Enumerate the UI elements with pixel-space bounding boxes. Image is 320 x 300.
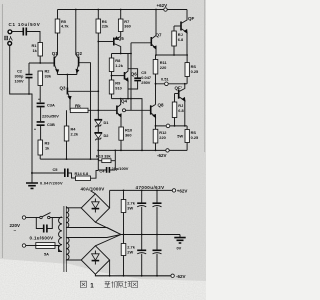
wire switch to transformer [50, 216, 62, 219]
svg-text:47000u/63V: 47000u/63V [136, 185, 165, 190]
resistor R8 [109, 58, 114, 72]
R9 bottom lead [111, 94, 113, 99]
svg-text:R14 6.8: R14 6.8 [75, 171, 89, 176]
svg-text:-62V: -62V [157, 153, 167, 158]
-62V supply rail [95, 274, 170, 276]
R10 bottom lead [120, 140, 122, 150]
R4 leads [66, 110, 68, 159]
svg-text:Q6: Q6 [131, 72, 138, 77]
svg-text:~: ~ [14, 228, 17, 233]
page edge line right [204, 0, 206, 152]
svg-text:C3A: C3A [47, 103, 55, 108]
svg-text:0.25: 0.25 [191, 135, 199, 140]
+62V supply rail [110, 189, 173, 191]
svg-text:+: + [38, 98, 40, 102]
C2 ground junction [28, 93, 30, 95]
wire Rk right to bias column [88, 109, 117, 111]
svg-text:33k: 33k [45, 74, 52, 79]
Q8 emitter node line [156, 125, 188, 127]
input terminal (signal) [8, 30, 12, 34]
transistor Q2 [76, 10, 79, 75]
resistor R2 [38, 71, 43, 86]
bias column (R6/diodes) [97, 10, 99, 160]
-62V amp rail [97, 149, 187, 151]
wire R1 bottom to base node [39, 56, 41, 63]
svg-text:2W: 2W [127, 250, 133, 255]
+62V supply terminal [172, 189, 175, 192]
resistor R3 [38, 140, 43, 155]
wire AC top to switch [26, 217, 40, 219]
-62V terminal [166, 149, 169, 152]
wire R3 bottom to node line [39, 155, 41, 159]
svg-text:3W: 3W [127, 206, 133, 211]
scanned photo grey region [0, 0, 206, 281]
svg-text:5W: 5W [177, 134, 183, 139]
transformer secondary 2 [66, 238, 69, 260]
wire C5 to R14 [68, 173, 75, 178]
svg-text:6.8: 6.8 [178, 37, 184, 42]
diode D2 [94, 133, 102, 141]
transistor QF [174, 10, 187, 56]
svg-text:Q8: Q8 [158, 102, 165, 107]
svg-text:28p/100V: 28p/100V [112, 166, 129, 171]
wire bus to Q3 [66, 75, 68, 88]
bridge1 top stub [90, 191, 95, 194]
capacitor C3B (electrolytic) [37, 122, 45, 125]
bleeder resistor 2.7k 3W [121, 200, 126, 213]
transistor Q5 [98, 37, 120, 54]
open test point near Q4 [123, 109, 126, 112]
transistor Q6 [111, 54, 129, 99]
svg-text:C1 10u/50V: C1 10u/50V [9, 22, 41, 27]
R7 leads [120, 10, 122, 37]
R12 leads [155, 126, 157, 150]
svg-text:R13 33k: R13 33k [96, 153, 112, 158]
wire bridge1 to +rail [109, 190, 111, 208]
emitter bus Q1/Q2 [57, 74, 77, 76]
bridge rectifier 1 [81, 194, 109, 222]
capacitor C5 (0.047/250V across Q6) [128, 69, 141, 89]
svg-text:4.7k: 4.7k [61, 24, 69, 29]
svg-text:0.25: 0.25 [191, 69, 199, 74]
svg-text:910: 910 [115, 85, 122, 90]
wire test point to driver column [126, 109, 151, 111]
transistor Q7 [131, 10, 156, 56]
resistor RJ (bottom) [172, 102, 177, 118]
svg-text:Q7: Q7 [156, 33, 163, 38]
svg-text:D1: D1 [104, 120, 110, 125]
svg-text:220: 220 [160, 65, 167, 70]
svg-text:1.2k: 1.2k [115, 63, 123, 68]
resistor R13 [98, 159, 115, 163]
svg-text:40A/1000V: 40A/1000V [81, 187, 105, 192]
AC terminal bottom [22, 244, 25, 247]
output line [156, 83, 188, 85]
diode D1 [94, 120, 102, 128]
RS bottom leads [186, 126, 188, 150]
line filter capacitor 0.1u/600V [36, 218, 52, 233]
svg-text:+62V: +62V [177, 189, 188, 194]
wire secondary1 to bridge1 [66, 207, 81, 209]
fuse 5A [36, 243, 55, 249]
filter cap top B [153, 190, 162, 234]
R11 leads [155, 55, 157, 105]
svg-text:5A: 5A [44, 251, 49, 256]
RJ top leads [173, 26, 175, 55]
resistor R7 [118, 19, 123, 32]
bleeder resistor 2.7k 2W [121, 244, 126, 256]
svg-text:0.047/200V: 0.047/200V [40, 181, 63, 186]
VAS bottom line [112, 99, 143, 151]
0V center line [121, 234, 180, 236]
figure caption 图1 整机原理图 (vector glyphs) [80, 281, 86, 287]
wire C3B to R3 [40, 126, 42, 140]
resistor RS (top) [185, 63, 189, 77]
R8 leads [111, 54, 113, 81]
svg-text:22k: 22k [102, 24, 109, 29]
svg-text:220u/50V: 220u/50V [42, 114, 59, 119]
resistor R1 [38, 43, 43, 57]
transformer core [64, 206, 66, 272]
svg-text:360: 360 [124, 24, 131, 29]
svg-text:360: 360 [125, 132, 132, 137]
wire rail to R5 to Q1 collector [57, 10, 59, 55]
driver base column [130, 43, 132, 111]
resistor R11 [153, 60, 158, 75]
Q7 emitter node line [156, 54, 187, 56]
svg-text:C3B: C3B [47, 122, 55, 127]
transistor Q4 [117, 99, 121, 127]
RJ bottom leads [174, 94, 176, 126]
RS top leads [186, 55, 188, 84]
svg-text:100V: 100V [15, 79, 24, 84]
input terminal (ground) [8, 42, 12, 46]
node: Q1 base line [29, 62, 54, 64]
resistor R5 [55, 19, 60, 33]
+62V terminal [164, 8, 167, 11]
ground line to C5 [32, 172, 64, 174]
wire fuse to transformer [55, 246, 62, 252]
resistor R12 [153, 129, 158, 143]
+62V top supply rail [58, 9, 188, 11]
resistor R10 [119, 127, 124, 140]
svg-text:Q4: Q4 [121, 99, 128, 104]
feedback block columns under -62V rail [97, 150, 116, 171]
2.7k 2W leads [123, 235, 125, 276]
wire AC bottom to fuse [26, 245, 36, 247]
power switch [40, 213, 51, 219]
input ground return wire [10, 45, 32, 173]
capacitor C3A (electrolytic) [37, 103, 45, 106]
svg-text:Q2: Q2 [76, 51, 83, 56]
capacitor C4 [98, 167, 115, 173]
transistor QF' [175, 84, 186, 126]
wire C1 to R1 top [27, 32, 40, 43]
resistor Rk [70, 108, 88, 112]
capacitor C1 [23, 28, 26, 36]
svg-text:-62V: -62V [176, 274, 186, 279]
wire input to C1 [12, 31, 23, 33]
output terminal [165, 82, 169, 86]
svg-text:0V: 0V [177, 246, 182, 251]
svg-text:QF': QF' [175, 85, 182, 90]
node line (R3/R4/feedback) [40, 158, 98, 160]
-62V supply terminal [171, 274, 174, 277]
center tap merge wires [66, 222, 121, 246]
filter cap bottom A [137, 235, 146, 276]
filter cap bottom B [153, 235, 162, 276]
svg-text:1: 1 [90, 283, 94, 290]
输入 label (vector glyphs) [4, 36, 12, 40]
transformer primary winding [59, 217, 62, 252]
capacitor C2 [26, 63, 33, 94]
transistor Q1 [54, 55, 59, 75]
resistor R9 [109, 80, 114, 94]
2.7k 3W leads [123, 190, 125, 234]
svg-text:Q1: Q1 [52, 51, 59, 56]
wire R2 to C3A [39, 86, 41, 103]
resistor R4 [64, 126, 69, 141]
svg-text:0.1u/600V: 0.1u/600V [30, 235, 54, 240]
svg-text:6.8: 6.8 [178, 108, 184, 113]
svg-text:+: + [34, 128, 36, 132]
svg-text:Q3: Q3 [60, 86, 67, 91]
transistor Q3 [67, 88, 98, 111]
svg-text:C4: C4 [99, 169, 105, 174]
resistor R14 [76, 176, 91, 181]
svg-text:D2: D2 [104, 133, 110, 138]
svg-text:QF: QF [188, 16, 195, 21]
svg-text:C5: C5 [53, 167, 59, 172]
transformer secondary 1 [66, 208, 69, 228]
page edge line left [1, 4, 3, 258]
ground junction dot [31, 172, 33, 174]
bias spreader top line [112, 53, 132, 55]
wire R14 to feedback block [91, 171, 99, 179]
AC terminal top [22, 216, 25, 219]
resistor RS (bottom) [185, 130, 189, 143]
bridge rectifier 2 [81, 246, 109, 274]
svg-text:250V: 250V [141, 80, 150, 85]
wire bridge2 to -rail [109, 260, 111, 276]
svg-text:+62V: +62V [157, 3, 168, 8]
Q2 base feedback wire [79, 63, 91, 159]
resistor RJ (top) [172, 31, 177, 46]
filter cap top A [137, 190, 146, 234]
svg-text:Q5: Q5 [118, 36, 125, 41]
ground symbol [26, 173, 38, 188]
wire C3A to C3B [40, 107, 42, 121]
svg-text:0.51: 0.51 [161, 77, 169, 82]
resistor R6 [96, 19, 101, 33]
capacitor C5 (feedback) [65, 169, 68, 178]
supply ground symbol [174, 235, 185, 244]
svg-text:2.2k: 2.2k [71, 132, 79, 137]
connector circle on line [166, 124, 170, 128]
svg-text:Rk: Rk [75, 104, 81, 109]
transistor Q8 [151, 105, 156, 126]
svg-text:220: 220 [159, 135, 166, 140]
wire secondary2 to bridge2 [66, 259, 81, 261]
